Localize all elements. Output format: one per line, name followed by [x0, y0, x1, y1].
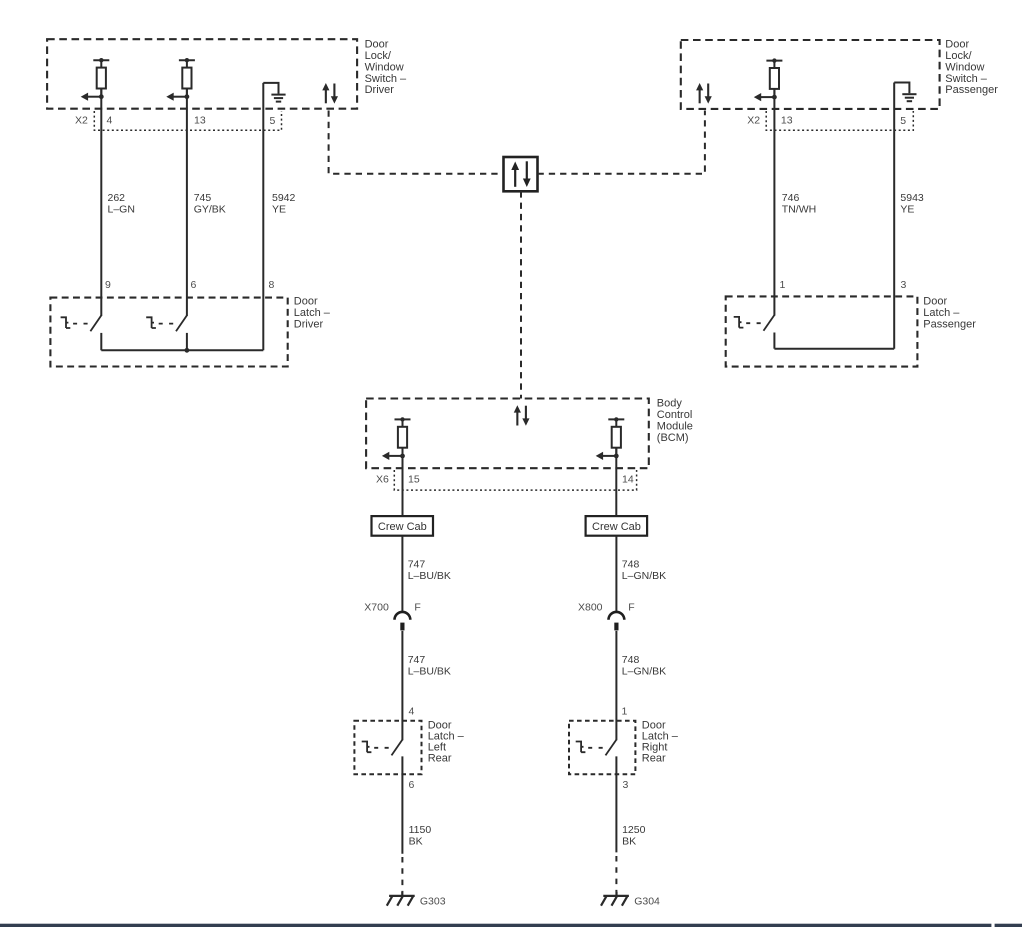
left rear latch lower contact stub and wire to pin 6	[401, 756, 403, 853]
wire from BCM pin 14 to right Crew Cab junction	[615, 448, 617, 516]
wire 746 TN/WH from passenger switch pin 13 to door latch pin 1	[773, 89, 775, 316]
bottom dark bar (left segment)	[0, 924, 991, 927]
svg-text:G303: G303	[420, 895, 446, 907]
svg-text:Body: Body	[657, 398, 683, 410]
left rear latch switch (with mechanical link)	[362, 740, 403, 756]
Door Latch - Left Rear module box	[354, 721, 421, 774]
passenger latch switch (with mechanical link)	[734, 315, 775, 331]
svg-text:1250: 1250	[622, 824, 646, 836]
up/down arrows in driver switch	[322, 83, 338, 104]
svg-text:(BCM): (BCM)	[657, 432, 689, 444]
svg-text:Rear: Rear	[642, 753, 666, 765]
svg-text:4: 4	[409, 705, 415, 717]
ground G303 symbol	[387, 892, 415, 906]
svg-text:Window: Window	[365, 61, 404, 73]
ground symbol inside driver switch	[263, 83, 285, 102]
wire 748 L-GN/BK from X800 to right rear latch pin 1	[615, 631, 617, 740]
svg-text:Door: Door	[365, 39, 389, 51]
wire label 748 L-GN/BK (lower)	[622, 654, 666, 678]
BCM driver output element (resistor with arrow)	[382, 417, 411, 460]
down arrow in control box	[523, 161, 531, 187]
svg-text:6: 6	[409, 779, 415, 791]
svg-text:262: 262	[108, 192, 126, 204]
driver latch switch 1 (with mechanical link)	[61, 315, 102, 331]
svg-text:Switch –: Switch –	[365, 73, 407, 85]
driver latch switch 2 (with mechanical link)	[146, 315, 187, 331]
Door Latch - Driver module box	[50, 298, 287, 367]
Door Latch - Passenger module box	[726, 296, 918, 366]
svg-text:746: 746	[782, 192, 800, 204]
svg-text:Rear: Rear	[428, 753, 452, 765]
svg-text:9: 9	[105, 279, 111, 291]
svg-text:13: 13	[781, 115, 793, 127]
svg-text:Window: Window	[945, 61, 984, 73]
svg-text:L–GN/BK: L–GN/BK	[622, 570, 666, 582]
svg-text:Lock/: Lock/	[365, 50, 392, 62]
svg-text:13: 13	[194, 115, 206, 127]
svg-text:Door: Door	[294, 296, 318, 308]
svg-text:BK: BK	[409, 836, 423, 848]
svg-text:Passenger: Passenger	[945, 84, 998, 96]
svg-text:Switch –: Switch –	[945, 73, 987, 85]
svg-text:14: 14	[622, 474, 634, 486]
driver latch switch 2 lower contact stub	[186, 333, 188, 350]
svg-text:Module: Module	[657, 420, 693, 432]
up arrow in control box	[511, 162, 519, 187]
dashed wire to ground G303	[401, 857, 403, 892]
svg-text:Latch –: Latch –	[294, 307, 331, 319]
junction on driver latch bus	[185, 348, 190, 353]
svg-text:Driver: Driver	[365, 84, 395, 96]
Door Latch - Driver label	[294, 296, 331, 331]
connector X2 dotted box (passenger)	[766, 111, 913, 130]
right rear latch switch (with mechanical link)	[576, 740, 617, 756]
wire label 747 L-BU/BK (lower)	[408, 654, 451, 678]
svg-text:Driver: Driver	[294, 319, 324, 331]
svg-text:L–BU/BK: L–BU/BK	[408, 570, 451, 582]
inline connector X700 pin F	[395, 612, 411, 631]
svg-text:X700: X700	[364, 602, 389, 614]
BCM passenger output element (resistor with arrow)	[596, 417, 625, 460]
driver latch switch 1 lower contact stub	[100, 333, 102, 350]
svg-text:Control: Control	[657, 409, 692, 421]
wire 747 L-BU/BK from Crew Cab to X700	[401, 536, 403, 612]
connector X2 dotted box (driver)	[94, 111, 281, 130]
svg-text:TN/WH: TN/WH	[782, 203, 816, 215]
wire label 748 L-GN/BK (upper)	[622, 559, 666, 583]
wire 745 GY/BK from driver switch pin 13 to door latch pin 6	[186, 88, 188, 316]
driver lock switch element 2 (resistor with arrow)	[166, 58, 195, 101]
Door Latch - Right Rear label	[642, 720, 679, 765]
svg-text:YE: YE	[900, 203, 914, 215]
passenger latch internal bus wire	[774, 348, 894, 350]
svg-text:Latch –: Latch –	[923, 307, 960, 319]
Body Control Module (BCM) box	[366, 399, 649, 469]
svg-text:747: 747	[408, 654, 426, 666]
up/down arrows in passenger switch	[696, 83, 712, 104]
right rear latch lower contact stub and wire to pin 3	[615, 756, 617, 852]
wire 747 L-BU/BK from X700 to left rear latch pin 4	[401, 631, 403, 740]
svg-text:5: 5	[900, 115, 906, 127]
wire 748 L-GN/BK from Crew Cab to X800	[615, 536, 617, 612]
Door Lock/Window Switch - Passenger label	[945, 39, 998, 97]
wire label 745 GY/BK	[194, 192, 226, 215]
svg-text:F: F	[628, 602, 634, 614]
dashed wire to ground G304	[615, 856, 617, 892]
wire label 1250 BK	[622, 824, 646, 848]
Door Lock/Window Switch - Passenger module box	[681, 40, 940, 109]
wire 262 L-GN from driver switch pin 4 to door latch pin 9	[100, 88, 102, 316]
svg-text:748: 748	[622, 559, 640, 571]
wire label 746 TN/WH	[782, 192, 816, 215]
svg-text:3: 3	[623, 779, 629, 791]
svg-text:X2: X2	[747, 115, 760, 127]
wire from BCM pin 15 to left Crew Cab junction	[402, 448, 404, 516]
Door Lock/Window Switch - Driver module box	[47, 39, 357, 109]
passenger latch switch lower contact stub	[773, 333, 775, 349]
inline connector X800 pin F	[609, 612, 625, 631]
svg-text:Crew Cab: Crew Cab	[592, 521, 641, 533]
dashed serial data wire from control box down to BCM	[520, 191, 522, 398]
svg-text:X800: X800	[578, 602, 603, 614]
svg-text:745: 745	[194, 192, 212, 204]
svg-text:5943: 5943	[900, 192, 924, 204]
svg-text:G304: G304	[634, 895, 660, 907]
svg-text:1: 1	[622, 705, 628, 717]
svg-text:5942: 5942	[272, 192, 296, 204]
svg-text:Door: Door	[945, 39, 969, 51]
bottom dark bar (right segment)	[995, 924, 1022, 927]
dashed serial data wire from driver switch to door lock control box	[329, 111, 504, 174]
svg-text:L–GN/BK: L–GN/BK	[622, 666, 666, 678]
svg-text:L–BU/BK: L–BU/BK	[408, 666, 451, 678]
svg-text:BK: BK	[622, 836, 636, 848]
wire label 1150 BK	[409, 824, 432, 848]
wire label 5943 YE	[900, 192, 924, 215]
svg-text:4: 4	[107, 115, 113, 127]
svg-text:Passenger: Passenger	[923, 319, 976, 331]
svg-text:15: 15	[408, 474, 420, 486]
svg-text:F: F	[414, 602, 420, 614]
svg-text:X6: X6	[376, 474, 389, 486]
driver latch internal bus wire	[101, 349, 263, 351]
svg-text:8: 8	[269, 279, 275, 291]
ground G304 symbol	[601, 892, 629, 906]
up/down arrows in BCM	[514, 405, 530, 426]
svg-text:3: 3	[901, 279, 907, 291]
svg-text:1150: 1150	[409, 824, 432, 836]
wire label 5942 YE	[272, 192, 296, 215]
door lock/unlock control box	[504, 157, 538, 191]
passenger lock switch element (resistor with arrow)	[754, 58, 783, 101]
Door Lock/Window Switch - Driver label	[365, 39, 407, 97]
wire label 747 L-BU/BK (upper)	[408, 559, 451, 583]
svg-text:GY/BK: GY/BK	[194, 203, 226, 215]
svg-text:5: 5	[270, 115, 276, 127]
ground symbol inside passenger switch	[894, 83, 916, 102]
svg-text:Lock/: Lock/	[945, 50, 972, 62]
svg-text:Door: Door	[923, 296, 947, 308]
svg-text:1: 1	[780, 279, 786, 291]
connector X6 dotted box (BCM)	[394, 470, 636, 490]
wire 5943 YE from passenger switch pin 5 to door latch pin 3	[893, 83, 895, 349]
Body Control Module (BCM) label	[657, 398, 693, 444]
Crew Cab box (left)	[372, 516, 434, 536]
wire 5942 YE from driver switch pin 5 to door latch pin 8	[262, 83, 264, 350]
Door Latch - Left Rear label	[428, 720, 465, 765]
driver lock switch element 1 (resistor with arrow)	[81, 58, 110, 101]
svg-text:748: 748	[622, 654, 640, 666]
Door Latch - Right Rear module box	[569, 721, 635, 774]
svg-text:6: 6	[191, 279, 197, 291]
dashed serial data wire from passenger switch to control box	[538, 111, 705, 174]
wire label 262 L-GN	[108, 192, 135, 215]
svg-text:L–GN: L–GN	[108, 203, 135, 215]
svg-text:747: 747	[408, 559, 426, 571]
svg-text:YE: YE	[272, 203, 286, 215]
Door Latch - Passenger label	[923, 296, 976, 331]
Crew Cab box (right)	[586, 516, 648, 536]
svg-text:Crew Cab: Crew Cab	[378, 521, 427, 533]
svg-text:X2: X2	[75, 115, 88, 127]
